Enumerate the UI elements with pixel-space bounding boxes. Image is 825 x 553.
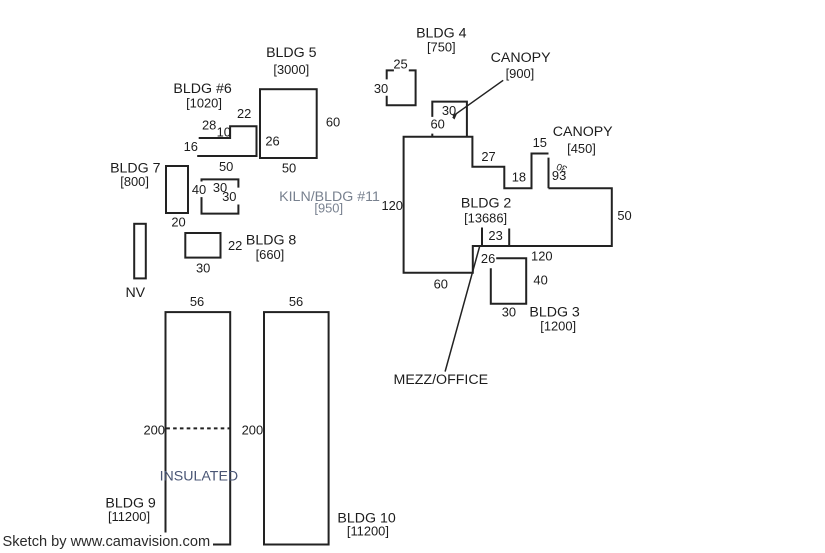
- NV structure outline: [134, 224, 146, 279]
- svg-text:BLDG 2: BLDG 2: [461, 195, 512, 211]
- building BLDG #6 outline: [197, 126, 256, 156]
- white backing of watermark: [0, 533, 213, 551]
- svg-text:[13686]: [13686]: [464, 210, 507, 225]
- building BLDG 7 outline: [166, 166, 188, 213]
- svg-text:NV: NV: [125, 285, 145, 301]
- svg-text:50: 50: [282, 160, 296, 175]
- svg-text:CANOPY: CANOPY: [491, 50, 551, 66]
- svg-text:18: 18: [512, 169, 526, 184]
- svg-text:[11200]: [11200]: [347, 523, 389, 538]
- svg-text:[900]: [900]: [506, 66, 535, 81]
- svg-text:[11200]: [11200]: [108, 509, 150, 524]
- svg-text:30: 30: [502, 304, 516, 319]
- svg-text:26: 26: [481, 251, 495, 266]
- svg-text:[750]: [750]: [427, 40, 456, 55]
- arrowhead of canopy leader: [452, 113, 457, 120]
- leader line MEZZ/OFFICE: [445, 246, 480, 372]
- svg-text:BLDG 5: BLDG 5: [266, 45, 317, 61]
- svg-text:Sketch by www.camavision.com: Sketch by www.camavision.com: [3, 534, 211, 550]
- svg-text:22: 22: [237, 106, 251, 121]
- main building BLDG 2 / KILN outline: [404, 137, 612, 273]
- building BLDG 8 outline: [185, 233, 220, 258]
- svg-text:27: 27: [481, 149, 495, 164]
- mezz tick mark left: [481, 228, 483, 246]
- svg-text:30: 30: [196, 261, 210, 276]
- svg-text:120: 120: [531, 248, 553, 263]
- svg-text:30: 30: [374, 81, 388, 96]
- svg-text:[1020]: [1020]: [186, 95, 222, 110]
- svg-text:[3000]: [3000]: [273, 62, 309, 77]
- svg-text:40: 40: [192, 182, 206, 197]
- svg-text:20: 20: [171, 215, 185, 230]
- svg-text:56: 56: [289, 294, 303, 309]
- building BLDG 9 outline: [166, 312, 231, 544]
- svg-text:50: 50: [617, 208, 631, 223]
- canopy 900 notch outline: [432, 102, 467, 138]
- svg-text:[1200]: [1200]: [540, 318, 576, 333]
- svg-text:200: 200: [242, 422, 264, 437]
- building BLDG 10 outline: [264, 312, 329, 544]
- svg-text:30: 30: [222, 189, 236, 204]
- svg-text:15: 15: [533, 135, 547, 150]
- shed 30x30 bracket outline: [202, 179, 239, 213]
- svg-text:CANOPY: CANOPY: [553, 124, 613, 140]
- svg-text:INSULATED: INSULATED: [160, 469, 239, 485]
- svg-text:60: 60: [326, 114, 340, 129]
- svg-text:22: 22: [228, 238, 242, 253]
- svg-text:30: 30: [555, 160, 569, 174]
- svg-text:28: 28: [202, 118, 216, 133]
- building BLDG 5 outline: [260, 89, 317, 158]
- svg-text:60: 60: [431, 117, 445, 132]
- svg-text:120: 120: [381, 198, 403, 213]
- dashed partition line in BLDG 9: [166, 427, 230, 429]
- svg-text:23: 23: [488, 228, 502, 243]
- svg-text:[660]: [660]: [256, 247, 285, 262]
- mezz tick mark right: [508, 229, 510, 246]
- svg-text:26: 26: [265, 134, 279, 149]
- svg-text:[800]: [800]: [120, 174, 149, 189]
- svg-text:[450]: [450]: [567, 141, 596, 156]
- svg-text:25: 25: [393, 56, 407, 71]
- building BLDG 3 outline: [491, 258, 526, 304]
- svg-text:200: 200: [143, 422, 165, 437]
- svg-text:50: 50: [219, 159, 233, 174]
- svg-text:[950]: [950]: [314, 201, 343, 216]
- svg-text:40: 40: [533, 273, 547, 288]
- svg-text:56: 56: [190, 294, 204, 309]
- svg-text:60: 60: [434, 277, 448, 292]
- svg-text:16: 16: [184, 139, 198, 154]
- svg-text:10: 10: [217, 124, 231, 139]
- svg-text:MEZZ/OFFICE: MEZZ/OFFICE: [394, 372, 489, 388]
- leader line CANOPY 900: [453, 80, 503, 116]
- building BLDG 4 outline with gaps: [387, 70, 416, 105]
